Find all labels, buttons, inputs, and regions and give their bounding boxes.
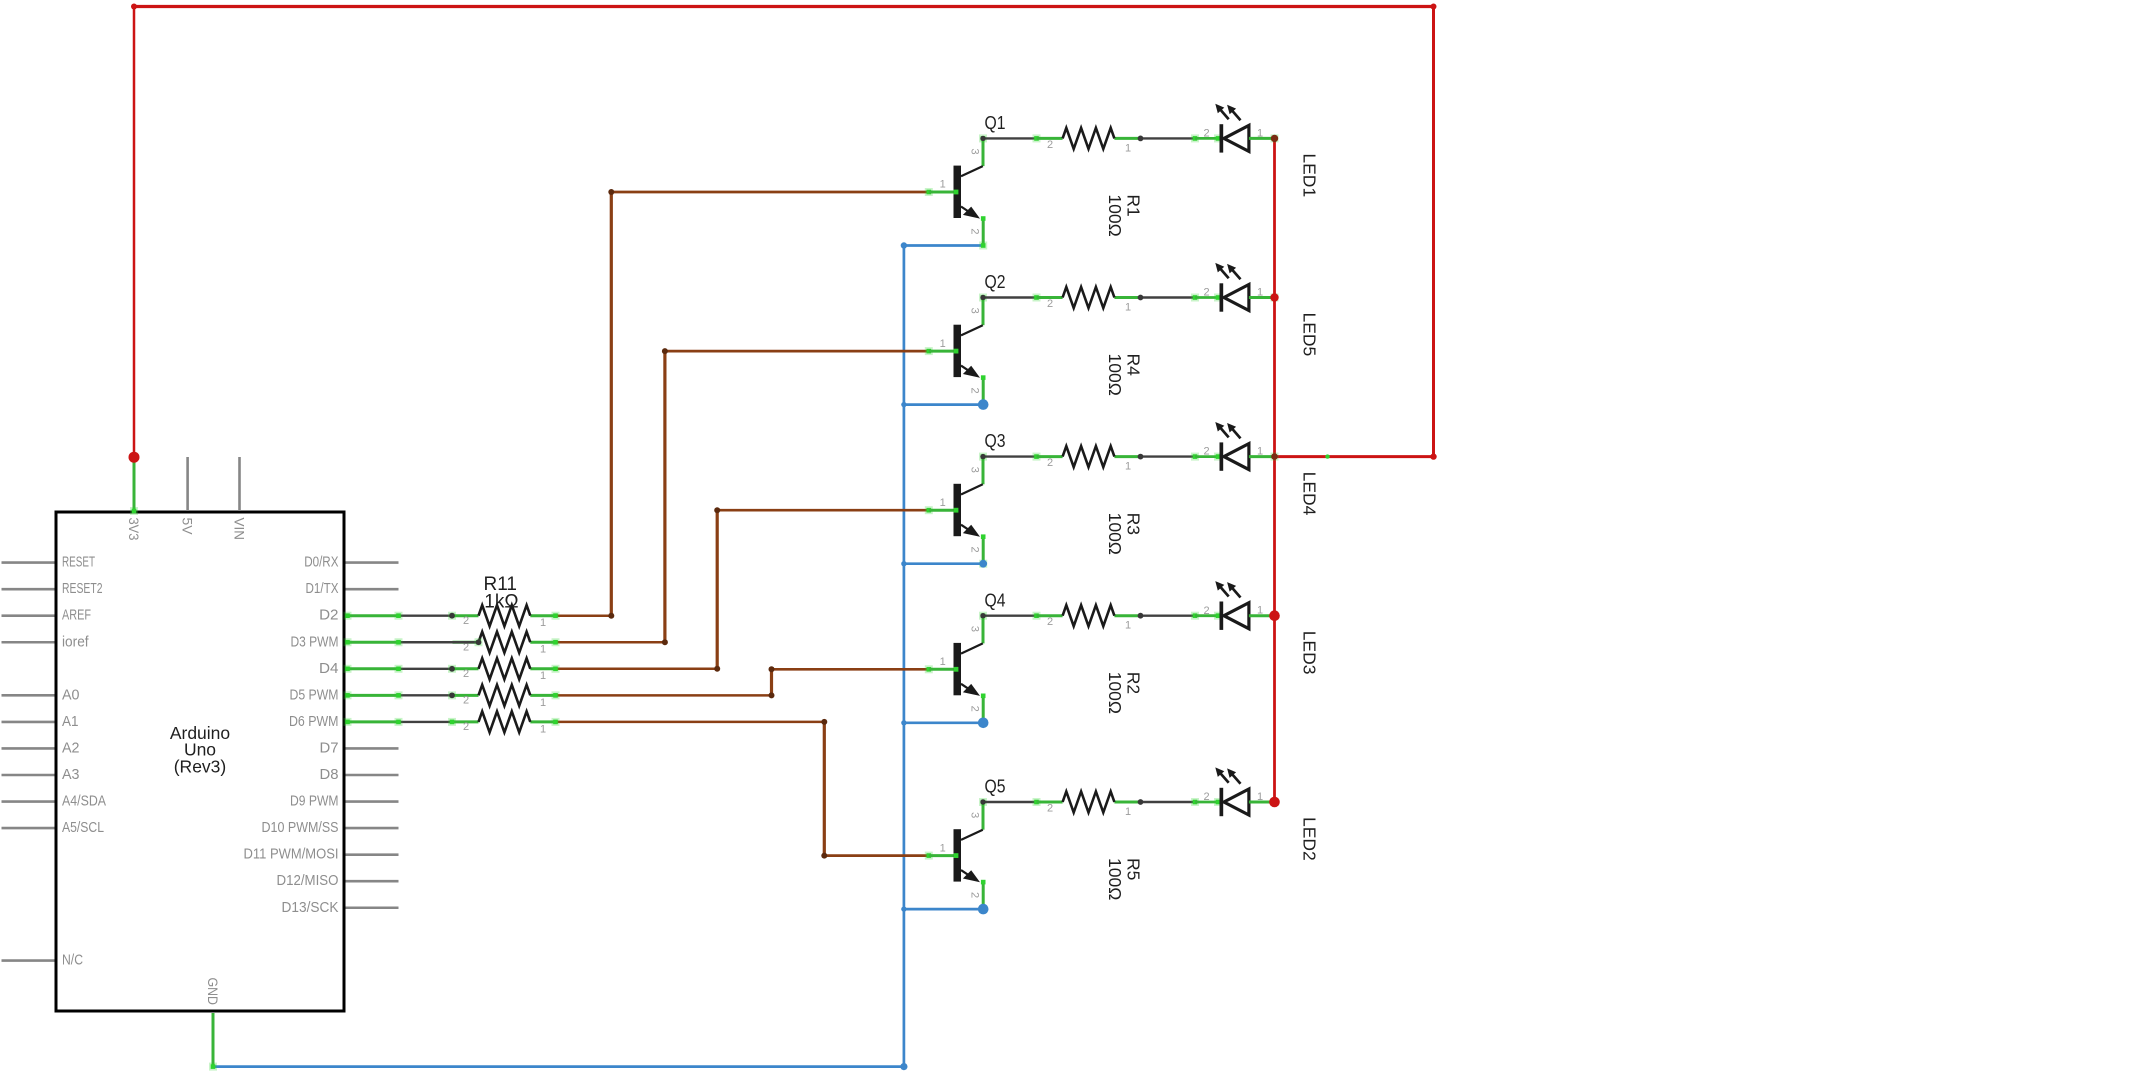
junction	[448, 718, 456, 726]
Arduino pin stub ioref	[2, 641, 55, 644]
junction	[476, 639, 482, 645]
svg-text:2: 2	[1047, 457, 1053, 469]
svg-text:1: 1	[1125, 302, 1131, 314]
Arduino pin stub D1/TX	[346, 588, 399, 591]
svg-text:3: 3	[969, 812, 981, 818]
Arduino Uno U1 body	[56, 512, 344, 1011]
junction red wires LED4 row	[1325, 454, 1329, 458]
svg-text:1: 1	[940, 656, 946, 668]
svg-text:3: 3	[969, 308, 981, 314]
Arduino pin stub VIN	[238, 457, 241, 511]
svg-text:D4: D4	[319, 661, 339, 677]
junction top left corner	[131, 4, 137, 10]
junction R11 pin1	[552, 638, 560, 646]
resistor R3	[1037, 446, 1141, 467]
Arduino pin stub A5/SCL	[2, 827, 55, 830]
svg-text:1: 1	[940, 497, 946, 509]
svg-text:1: 1	[540, 644, 546, 656]
svg-text:2: 2	[969, 387, 981, 393]
junction 3V3 at red riser	[129, 452, 140, 463]
svg-text:D12/MISO: D12/MISO	[277, 873, 339, 889]
wire Q2 collector to R4	[983, 296, 1037, 298]
svg-text:A0: A0	[62, 687, 80, 703]
junction GND bus tee	[901, 720, 906, 725]
junction GND bus tee	[901, 402, 906, 407]
svg-text:1kΩ: 1kΩ	[484, 592, 518, 613]
svg-text:100Ω: 100Ω	[1105, 194, 1125, 236]
svg-text:2: 2	[969, 706, 981, 712]
svg-text:1: 1	[940, 842, 946, 854]
junction	[1191, 134, 1199, 142]
resistor R11 element 1	[453, 605, 557, 626]
wire blue emitter stub	[904, 403, 983, 406]
junction brown D2	[608, 613, 614, 619]
junction brown D3 upper corner	[662, 348, 668, 354]
junction	[1033, 294, 1041, 302]
junction brown D5	[769, 692, 775, 698]
svg-text:3V3: 3V3	[126, 518, 141, 541]
wire R5 to LED2	[1143, 801, 1195, 803]
wire blue emitter stub	[904, 721, 983, 724]
Arduino pin stub A2	[2, 747, 55, 750]
svg-text:R3: R3	[1124, 513, 1144, 535]
svg-text:R1: R1	[1124, 194, 1144, 216]
svg-text:1: 1	[540, 617, 546, 629]
transistor Q3	[925, 457, 986, 564]
svg-text:1: 1	[540, 697, 546, 709]
node emitter to GND bus	[978, 904, 989, 915]
junction	[395, 718, 403, 726]
Arduino pin stub AREF	[2, 614, 55, 617]
wire green D4 from Arduino	[346, 667, 399, 670]
junction	[1138, 454, 1144, 460]
wire green GND pin stub	[212, 1013, 215, 1067]
svg-text:Q4: Q4	[985, 590, 1006, 610]
svg-text:D10 PWM/SS: D10 PWM/SS	[262, 820, 339, 836]
node LED2 anode on red bus	[1269, 797, 1280, 808]
junction	[1033, 798, 1041, 806]
svg-text:A3: A3	[62, 767, 80, 783]
wire green D3 from Arduino	[346, 641, 399, 644]
node emitter to GND bus	[978, 399, 989, 410]
wire brown D6 to Q5 base	[556, 722, 929, 856]
svg-text:ioref: ioref	[62, 634, 89, 650]
svg-text:N/C: N/C	[62, 953, 83, 969]
junction	[395, 612, 403, 620]
wire R2 to LED3	[1143, 615, 1195, 617]
junction	[1138, 799, 1144, 805]
svg-text:Q2: Q2	[985, 272, 1006, 292]
svg-text:Q3: Q3	[985, 431, 1006, 451]
resistor R11 element 5	[453, 711, 557, 732]
junction	[1138, 613, 1144, 619]
wire 3V3 red power loop	[134, 7, 1434, 458]
transistor Q1	[925, 138, 986, 245]
wire green D2 from Arduino	[346, 614, 399, 617]
junction top right corner	[1431, 4, 1437, 10]
svg-text:1: 1	[940, 338, 946, 350]
svg-text:LED1: LED1	[1300, 153, 1320, 197]
wire green D5 from Arduino	[346, 694, 399, 697]
resistor R1	[1037, 128, 1141, 149]
Arduino pin stub D8	[346, 774, 399, 777]
junction	[1191, 294, 1199, 302]
junction brown D3	[662, 639, 668, 645]
junction at Arduino pin	[344, 665, 352, 673]
svg-text:Q1: Q1	[985, 113, 1006, 133]
wire brown D5 to Q4 base	[556, 669, 929, 695]
Arduino pin stub D11 PWM/MOSI	[346, 853, 399, 856]
junction at Arduino pin	[344, 638, 352, 646]
svg-text:1: 1	[1257, 605, 1263, 617]
svg-text:1: 1	[1257, 791, 1263, 803]
junction brown D4 upper corner	[714, 507, 720, 513]
svg-text:LED3: LED3	[1300, 631, 1320, 675]
svg-text:2: 2	[1047, 803, 1053, 815]
junction	[1138, 295, 1144, 301]
junction brown D6	[821, 719, 827, 725]
wire D4 to R11	[399, 668, 453, 670]
node LED5 anode on red bus	[1270, 293, 1278, 301]
junction R11 pin1	[552, 612, 560, 620]
svg-text:1: 1	[1125, 806, 1131, 818]
wire blue emitter stub	[904, 908, 983, 911]
junction collector	[980, 295, 985, 300]
wire D3 overlap lead	[452, 641, 479, 643]
node GND wire corner	[209, 1063, 217, 1071]
junction GND bus tee	[901, 906, 906, 911]
svg-text:2: 2	[1047, 298, 1053, 310]
svg-text:A2: A2	[62, 740, 80, 756]
svg-text:D7: D7	[320, 740, 339, 756]
svg-text:A4/SDA: A4/SDA	[62, 794, 106, 810]
svg-text:2: 2	[1203, 605, 1209, 617]
svg-text:5V: 5V	[179, 518, 194, 535]
resistor R11 element 4	[453, 685, 557, 706]
svg-text:R5: R5	[1124, 858, 1144, 880]
svg-text:VIN: VIN	[231, 518, 246, 541]
svg-text:LED2: LED2	[1300, 817, 1320, 861]
svg-text:D2: D2	[319, 608, 338, 624]
svg-text:2: 2	[1203, 287, 1209, 299]
resistor R2	[1037, 605, 1141, 626]
junction	[395, 691, 403, 699]
resistor R11 element 3	[453, 658, 557, 679]
svg-text:D9 PWM: D9 PWM	[290, 794, 339, 810]
svg-text:2: 2	[1203, 446, 1209, 458]
junction	[395, 665, 403, 673]
wire D5 to R11	[399, 694, 453, 696]
svg-text:D8: D8	[320, 767, 339, 783]
svg-text:D1/TX: D1/TX	[306, 581, 339, 597]
wire Q4 collector to R2	[983, 615, 1037, 617]
svg-text:1: 1	[1257, 286, 1263, 298]
Arduino pin stub D13/SCK	[346, 906, 399, 909]
junction	[1191, 798, 1199, 806]
junction collector	[980, 454, 985, 459]
junction blue corner GND	[900, 1063, 907, 1070]
svg-text:3: 3	[969, 626, 981, 632]
junction blue corner Q1	[901, 242, 907, 248]
transistor Q4	[925, 616, 986, 723]
junction R11 pin1	[552, 691, 560, 699]
wire blue ground bus	[213, 246, 983, 1067]
svg-text:LED5: LED5	[1300, 313, 1320, 357]
junction brown D4	[714, 666, 720, 672]
junction brown D6 lower corner	[821, 853, 827, 859]
wire brown D3 to Q2 base	[556, 351, 929, 642]
junction	[449, 692, 455, 698]
svg-text:1: 1	[540, 670, 546, 682]
junction red corner LED4 row	[1430, 453, 1436, 459]
junction collector	[980, 799, 985, 804]
svg-text:AREF: AREF	[62, 608, 91, 624]
svg-text:100Ω: 100Ω	[1105, 858, 1125, 900]
junction at Arduino pin	[344, 612, 352, 620]
svg-text:D11 PWM/MOSI: D11 PWM/MOSI	[244, 847, 339, 863]
junction	[1191, 453, 1199, 461]
junction at Arduino pin	[344, 691, 352, 699]
svg-text:3: 3	[969, 149, 981, 155]
node 3V3 pin	[130, 507, 138, 515]
Arduino pin stub RESET2	[2, 588, 55, 591]
Arduino pin stub D10 PWM/SS	[346, 827, 399, 830]
svg-text:1: 1	[940, 179, 946, 191]
Arduino pin stub 5V	[186, 457, 189, 511]
svg-text:100Ω: 100Ω	[1105, 354, 1125, 396]
wire D6 to R11	[399, 721, 453, 723]
junction collector	[980, 613, 985, 618]
junction collector	[980, 136, 985, 141]
svg-text:R2: R2	[1124, 672, 1144, 694]
resistor R4	[1037, 287, 1141, 308]
svg-text:D13/SCK: D13/SCK	[282, 900, 339, 916]
node LED4 anode on red bus	[1271, 453, 1278, 460]
junction	[1191, 612, 1199, 620]
junction	[1033, 453, 1041, 461]
svg-text:2: 2	[969, 228, 981, 234]
LED LED5	[1214, 263, 1275, 312]
Arduino pin stub RESET	[2, 561, 55, 564]
svg-text:R4: R4	[1124, 354, 1144, 377]
svg-text:2: 2	[463, 695, 469, 707]
junction GND bus tee	[901, 561, 906, 566]
svg-text:1: 1	[1125, 620, 1131, 632]
svg-text:2: 2	[1047, 139, 1053, 151]
transistor Q2	[925, 298, 986, 405]
node emitter to GND bus	[979, 560, 987, 568]
Arduino pin stub A0	[2, 694, 55, 697]
svg-text:100Ω: 100Ω	[1105, 513, 1125, 555]
Arduino pin stub D7	[346, 747, 399, 750]
svg-text:2: 2	[969, 547, 981, 553]
wire brown D2 to Q1 base	[556, 192, 929, 616]
svg-text:1: 1	[1257, 127, 1263, 139]
Arduino pin stub D12/MISO	[346, 880, 399, 883]
svg-text:Q5: Q5	[985, 777, 1006, 797]
wire green 3V3 pin stub	[133, 459, 136, 512]
junction R11 pin1	[552, 665, 560, 673]
wire D2 to R11	[399, 615, 453, 617]
svg-text:2: 2	[463, 615, 469, 627]
svg-text:2: 2	[1047, 616, 1053, 628]
svg-text:1: 1	[1125, 461, 1131, 473]
wire blue emitter stub	[904, 562, 983, 565]
Arduino pin stub A3	[2, 774, 55, 777]
wire R4 to LED5	[1143, 296, 1195, 298]
Arduino pin stub D9 PWM	[346, 800, 399, 803]
Arduino pin stub A1	[2, 721, 55, 724]
LED LED1	[1214, 104, 1275, 153]
wire Q3 collector to R3	[983, 455, 1037, 457]
node emitter Q1 to GND bus	[979, 242, 987, 250]
junction	[449, 613, 455, 619]
svg-text:(Rev3): (Rev3)	[174, 756, 227, 776]
svg-text:1: 1	[1125, 142, 1131, 154]
node emitter to GND bus	[978, 718, 989, 729]
wire R1 to LED1	[1143, 137, 1195, 139]
svg-text:D6 PWM: D6 PWM	[289, 714, 339, 730]
junction brown D5 upper corner	[769, 666, 775, 672]
svg-text:2: 2	[1203, 128, 1209, 140]
junction	[449, 666, 455, 672]
Arduino pin stub D0/RX	[346, 561, 399, 564]
svg-text:100Ω: 100Ω	[1105, 672, 1125, 714]
svg-text:D3 PWM: D3 PWM	[291, 634, 339, 650]
wire red LED anode bus	[1273, 138, 1276, 802]
junction	[1138, 136, 1144, 142]
junction	[1033, 612, 1041, 620]
LED LED4	[1214, 422, 1275, 471]
svg-text:GND: GND	[205, 978, 220, 1006]
junction R11 pin1	[552, 718, 560, 726]
svg-text:RESET: RESET	[62, 555, 95, 571]
resistor R5	[1037, 792, 1141, 813]
Arduino pin stub A4/SDA	[2, 800, 55, 803]
svg-text:2: 2	[1203, 791, 1209, 803]
svg-text:LED4: LED4	[1300, 472, 1320, 516]
svg-text:D5 PWM: D5 PWM	[290, 687, 339, 703]
node LED1 anode on red bus	[1271, 135, 1278, 142]
svg-text:RESET2: RESET2	[62, 581, 103, 597]
svg-text:A5/SCL: A5/SCL	[62, 820, 104, 836]
transistor Q5	[925, 802, 986, 909]
junction	[395, 638, 403, 646]
svg-text:2: 2	[969, 892, 981, 898]
Arduino pin stub N/C	[2, 959, 55, 962]
svg-text:1: 1	[1257, 446, 1263, 458]
resistor R11 element 2	[453, 632, 557, 653]
junction	[1033, 134, 1041, 142]
wire brown D4 to Q3 base	[556, 510, 929, 669]
wire R3 to LED4	[1143, 455, 1195, 457]
junction brown D2 upper corner	[608, 189, 614, 195]
svg-text:2: 2	[463, 721, 469, 733]
junction at Arduino pin	[344, 718, 352, 726]
svg-text:2: 2	[463, 668, 469, 680]
wire Q1 collector to R1	[983, 137, 1037, 139]
svg-text:A1: A1	[62, 714, 79, 730]
svg-text:3: 3	[969, 467, 981, 473]
svg-text:D0/RX: D0/RX	[304, 555, 339, 571]
node LED3 anode on red bus	[1269, 610, 1280, 621]
svg-text:1: 1	[540, 723, 546, 735]
wire green D6 from Arduino	[346, 720, 399, 723]
wire Q5 collector to R5	[983, 801, 1037, 803]
wire D3 to R11	[399, 641, 453, 643]
LED LED2	[1214, 767, 1275, 816]
LED LED3	[1214, 581, 1275, 630]
